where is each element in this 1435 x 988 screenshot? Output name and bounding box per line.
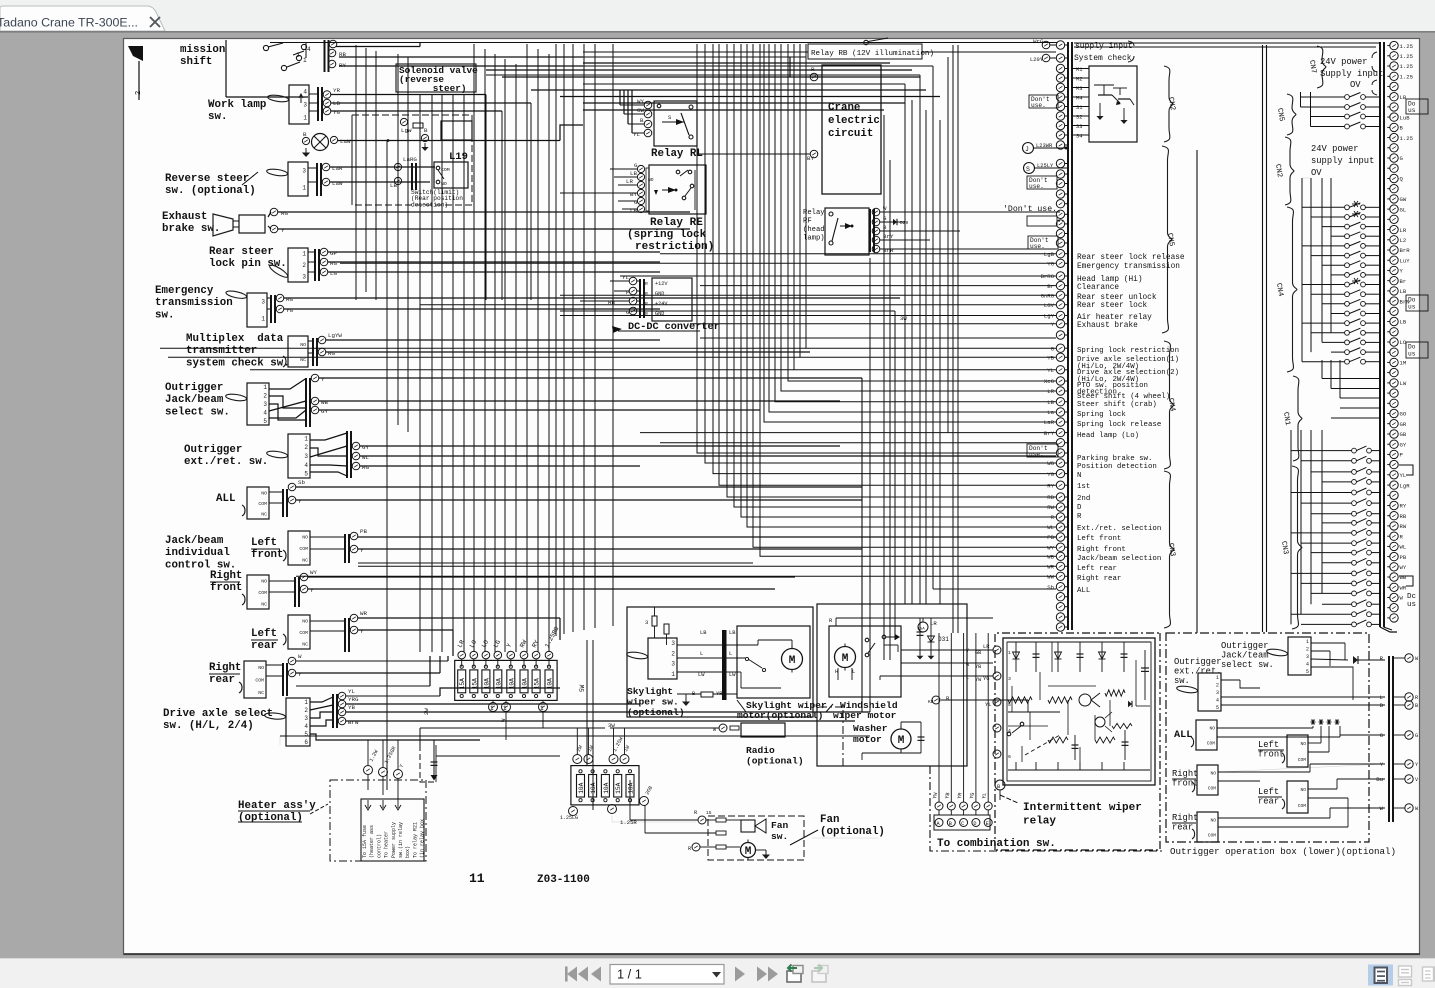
outrigger jack/beam select bar (305, 378, 307, 427)
toolbar last-page button (757, 967, 767, 982)
wire rear steer lock 2 (328, 261, 660, 263)
svg-text:1: 1 (263, 384, 267, 391)
svg-text:3: 3 (1306, 654, 1309, 660)
svg-text:15A: 15A (471, 678, 478, 689)
svg-text:M1: M1 (1076, 67, 1082, 73)
svg-text:S: S (1026, 166, 1030, 173)
combination feeder verticals (938, 633, 940, 770)
svg-text:L: L (1380, 694, 1383, 701)
svg-text:Y: Y (298, 671, 302, 678)
right rear switch (244, 661, 266, 698)
svg-text:us: us (1408, 351, 1416, 358)
relay RE wires (610, 168, 637, 170)
svg-text:To heater: To heater (384, 831, 390, 858)
svg-text:BrY: BrY (1044, 430, 1055, 437)
svg-text:Right: Right (1172, 769, 1198, 779)
svg-text:LB: LB (729, 630, 736, 636)
outrigger ext/ret pins (352, 442, 360, 450)
svg-text:YG: YG (286, 307, 293, 314)
svg-text:Clearance: Clearance (1077, 284, 1119, 292)
relay RE contacts (676, 170, 680, 174)
svg-text:5: 5 (1216, 705, 1219, 711)
svg-text:Head lamp (Hi): Head lamp (Hi) (1077, 276, 1143, 284)
svg-text:Outrigger operation box (lower: Outrigger operation box (lower)(optional… (1170, 846, 1396, 857)
svg-text:select sw.: select sw. (1221, 660, 1274, 670)
svg-text:Skylight: Skylight (627, 686, 673, 697)
pin J (1023, 143, 1034, 154)
intermittent relay left pins (993, 646, 1001, 654)
washer capacitor (920, 725, 922, 753)
svg-text:Y: Y (360, 628, 364, 635)
svg-text:transmission: transmission (155, 297, 233, 309)
relay RF contacts (829, 212, 833, 216)
svg-text:Outrigger: Outrigger (1174, 657, 1222, 667)
svg-text:R: R (1415, 695, 1418, 701)
wire top bus relay RB (583, 51, 808, 53)
toolbar continuous-view button (1399, 966, 1412, 977)
emergency transmission bar (270, 295, 272, 323)
svg-text:5: 5 (1008, 702, 1011, 708)
svg-text:sw. (H/L, 2/4): sw. (H/L, 2/4) (163, 720, 254, 732)
svg-text:Fan: Fan (820, 814, 839, 826)
wire from transmission shift pin 4 (336, 46, 420, 48)
svg-text:1: 1 (1216, 675, 1219, 681)
dont use box right 1 (1406, 99, 1428, 114)
fuse row1 pins and labels (458, 651, 466, 659)
svg-text:KB: KB (928, 699, 934, 705)
svg-text:LB: LB (700, 630, 707, 636)
svg-text:us: us (1408, 304, 1416, 311)
wire rr horizontal extra (296, 685, 430, 687)
toolbar next-page button (735, 967, 745, 982)
outrigger op ALL switch (1196, 720, 1217, 750)
svg-text:NO: NO (648, 177, 654, 183)
svg-text:Crane: Crane (828, 102, 860, 114)
wire lf horizontal extra (358, 562, 753, 564)
wire bulb to L19 (338, 140, 560, 142)
right front pins (300, 573, 308, 581)
svg-text:LR: LR (930, 620, 937, 627)
long vertical wire A (1196, 150, 1198, 633)
svg-text:3: 3 (671, 640, 675, 647)
svg-text:10A: 10A (522, 678, 529, 689)
wire da 2 (346, 703, 640, 705)
relay RB contact (864, 40, 868, 44)
svg-text:transmitter: transmitter (186, 345, 257, 357)
combination dashed outline (930, 766, 1163, 851)
svg-text:mission: mission (180, 44, 225, 56)
fan pins (698, 816, 706, 824)
wire oer 2 (360, 455, 1056, 457)
svg-text:sw.: sw. (771, 831, 788, 842)
drive axle select switch (286, 698, 310, 746)
toolbar next-view icon (disabled) (812, 971, 826, 982)
wire exhaust brake 1 (268, 212, 271, 217)
svg-text:Steer shift (4 wheel): Steer shift (4 wheel) (1077, 393, 1170, 401)
svg-text:NO: NO (258, 665, 264, 671)
svg-text:M: M (745, 846, 752, 858)
ALL switch (247, 487, 269, 519)
svg-text:(in relay box: (in relay box (420, 819, 426, 858)
svg-text:use.: use. (1029, 451, 1044, 458)
wire multiplex 2 (326, 351, 810, 353)
svg-text:rear: rear (251, 640, 277, 652)
svg-text:GR: GR (1400, 421, 1407, 428)
browser tab bar background (0, 0, 1435, 31)
wire work lamp 1 (331, 94, 486, 96)
svg-text:3: 3 (302, 168, 306, 175)
transmission shift switch contacts (263, 45, 268, 50)
outrigger op wires (1311, 642, 1345, 644)
svg-text:COM: COM (255, 678, 264, 684)
CN5 bracket right (1287, 94, 1296, 135)
wire long vertical O2 (952, 45, 954, 633)
drive axle pins (338, 692, 346, 700)
wire bottom horizontals (420, 727, 560, 729)
svg-text:WY: WY (1047, 544, 1054, 551)
svg-text:Bu: Bu (1376, 776, 1383, 783)
right feeder verticals CN4 tops (1302, 177, 1311, 179)
svg-text:COM: COM (1208, 786, 1217, 792)
dont use box 4 (1028, 236, 1058, 249)
reverse steer switch (288, 162, 308, 196)
svg-text:WR: WR (1400, 585, 1407, 592)
svg-text:1: 1 (304, 435, 308, 442)
svg-text:3: 3 (303, 102, 307, 109)
svg-text:PB: PB (1400, 554, 1407, 561)
svg-text:WW: WW (1047, 574, 1054, 581)
svg-text:1.25: 1.25 (1400, 135, 1413, 142)
svg-text:WB: WB (1400, 574, 1407, 581)
svg-text:5W: 5W (579, 684, 586, 692)
svg-text:YB: YB (944, 792, 951, 799)
D31 diodes (919, 618, 921, 648)
svg-text:WY: WY (637, 98, 644, 105)
small stub bracket right 1 (1399, 465, 1413, 475)
svg-text:2W: 2W (423, 708, 430, 715)
svg-text:R: R (694, 810, 697, 816)
svg-text:control): control) (376, 834, 382, 858)
svg-text:Emergency: Emergency (155, 285, 214, 297)
wire ojb 2 (319, 400, 840, 402)
svg-text:R: R (645, 301, 648, 307)
empty dash box (1027, 216, 1057, 226)
rear steer lock pin pins (320, 248, 328, 256)
wire bus rows to CN4 (160, 347, 806, 349)
svg-text:To 15A fuse: To 15A fuse (362, 825, 368, 858)
svg-text:front: front (251, 549, 283, 561)
svg-text:LB: LB (630, 170, 637, 177)
svg-text:J: J (1025, 146, 1029, 153)
svg-text:N: N (1077, 472, 1081, 480)
svg-text:individual: individual (165, 547, 230, 559)
right rear bar (282, 663, 284, 696)
emergency transmission switch (247, 293, 267, 327)
svg-text:Rear steer lock: Rear steer lock (1077, 302, 1148, 310)
outrigger op left rear switch (1287, 781, 1308, 813)
right rows CN1 (1322, 378, 1380, 380)
fuse row1 lower wires (492, 700, 494, 703)
wire da 4 (346, 720, 855, 722)
wire top bus 2 (583, 56, 806, 58)
wire long vertical G (889, 160, 891, 660)
skylight wiper switch (648, 638, 677, 679)
svg-text:WrG: WrG (1033, 38, 1044, 45)
svg-text:RY: RY (1047, 482, 1054, 489)
wire ojb 1 (319, 377, 862, 379)
svg-text:GY: GY (362, 444, 369, 451)
svg-text:LW: LW (698, 672, 705, 678)
svg-text:GnRG: GnRG (1041, 292, 1055, 299)
svg-text:RW: RW (1400, 523, 1407, 530)
svg-text:Spring lock: Spring lock (1077, 411, 1126, 419)
bracket CN5 center (1162, 146, 1172, 333)
wire top bus 1 (270, 42, 1057, 44)
svg-text:LG: LG (330, 270, 337, 277)
svg-text:Rear steer lock release: Rear steer lock release (1077, 254, 1185, 262)
wire top right span 2 (1074, 46, 1376, 48)
svg-text:Sb: Sb (1047, 584, 1054, 591)
heater arrows (365, 800, 371, 810)
svg-text:4: 4 (307, 46, 311, 53)
svg-text:COM: COM (299, 546, 308, 552)
multiplex check switch (288, 336, 308, 367)
fuse row1 lower pins (489, 703, 498, 712)
svg-text:Jack/beam: Jack/beam (165, 535, 224, 547)
toolbar two-page-view button (1423, 967, 1434, 981)
relay RF wires (880, 211, 1060, 213)
wire bottom bus 1 (387, 755, 1166, 757)
fan dashed box (708, 816, 804, 860)
emergency transmission pins (276, 294, 284, 302)
svg-text:LR: LR (1400, 227, 1407, 234)
svg-text:4: 4 (1008, 728, 1011, 734)
svg-text:Rear steer unlock: Rear steer unlock (1077, 294, 1157, 302)
right rear pins (288, 657, 296, 665)
svg-text:Radio: Radio (746, 745, 775, 756)
intermittent relay bottom pin (995, 780, 1005, 790)
svg-text:Power supply: Power supply (391, 822, 397, 858)
right front switch (247, 575, 269, 609)
svg-text:Outrigger: Outrigger (165, 382, 223, 394)
skylight motor box (737, 626, 810, 698)
svg-text:3: 3 (261, 299, 265, 306)
svg-text:D31: D31 (938, 636, 949, 643)
central connector bar CN2-CN3 (1067, 42, 1069, 630)
svg-text:NO: NO (300, 342, 306, 348)
svg-text:M3: M3 (1076, 86, 1082, 92)
right switch rows CN5 (1301, 96, 1345, 98)
svg-text:10A: 10A (508, 678, 515, 689)
svg-text:motor: motor (853, 734, 882, 745)
windshield contacts (865, 638, 869, 642)
wire rf 2 (269, 591, 295, 593)
svg-text:1: 1 (490, 705, 494, 712)
wire long vertical L2 (932, 66, 934, 589)
svg-text:1.25: 1.25 (1400, 53, 1413, 60)
wire reverse steer 1 (330, 166, 418, 168)
svg-text:10A: 10A (628, 782, 635, 793)
svg-text:COM: COM (258, 501, 267, 507)
svg-text:NC: NC (302, 641, 308, 647)
svg-text:10A: 10A (547, 678, 554, 689)
svg-text:15: 15 (706, 810, 712, 816)
svg-text:G: G (634, 162, 638, 169)
svg-text:GY: GY (1400, 441, 1407, 448)
svg-text:Y: Y (281, 227, 285, 234)
svg-text:NO: NO (1210, 818, 1216, 824)
svg-text:ALL: ALL (216, 493, 235, 505)
svg-text:2: 2 (1306, 646, 1309, 652)
svg-text:Exhaust brake: Exhaust brake (1077, 322, 1138, 330)
svg-text:5: 5 (304, 471, 308, 478)
intermittent relay outer dash box (995, 633, 1160, 850)
intermittent relay internals (1015, 642, 1017, 672)
svg-text:restriction): restriction) (635, 241, 714, 253)
svg-text:LB: LB (1400, 319, 1407, 326)
svg-text:ALL: ALL (1174, 730, 1192, 741)
combination connector box (934, 815, 990, 830)
svg-text:Do: Do (1408, 297, 1416, 304)
svg-text:M2: M2 (1076, 77, 1082, 83)
svg-text:WL: WL (1047, 524, 1054, 531)
svg-text:NO: NO (1210, 771, 1216, 777)
outrigger op right rear switch (1197, 812, 1218, 842)
svg-text:NC: NC (302, 557, 308, 563)
svg-text:sw. (optional): sw. (optional) (165, 185, 256, 197)
svg-text:2: 2 (302, 262, 306, 269)
heater feed wires (367, 775, 369, 790)
svg-text:Left rear: Left rear (1077, 565, 1117, 573)
svg-text:Br: Br (1047, 283, 1054, 290)
dont use box 1 (1029, 95, 1058, 108)
svg-text:S4: S4 (1076, 134, 1082, 140)
svg-text:COM: COM (1298, 803, 1307, 809)
svg-text:select sw.: select sw. (165, 406, 230, 418)
svg-text:lock pin sw.: lock pin sw. (209, 258, 287, 270)
svg-text:3: 3 (645, 619, 648, 626)
windshield outer box (817, 604, 967, 766)
svg-text:1: 1 (303, 57, 307, 64)
svg-text:R: R (645, 311, 648, 317)
svg-text:C: C (961, 821, 964, 827)
svg-text:GY: GY (321, 408, 328, 415)
toolbar previous-view icon (787, 971, 801, 982)
svg-text:supply input: supply input (1311, 156, 1374, 166)
wire lf 1 (310, 536, 345, 538)
svg-text:COM: COM (1298, 757, 1307, 763)
svg-text:R: R (645, 281, 648, 287)
svg-text:Relay RE: Relay RE (650, 217, 703, 229)
svg-text:Right: Right (1172, 813, 1198, 823)
svg-text:Tadano Crane TR-300E...: Tadano Crane TR-300E... (0, 15, 138, 29)
svg-text:E: E (986, 821, 989, 827)
svg-text:L20Y: L20Y (1030, 57, 1044, 63)
svg-text:NO: NO (1209, 726, 1215, 732)
fuse row2 lower pins (569, 807, 578, 816)
svg-text:1: 1 (302, 251, 306, 258)
svg-text:S2: S2 (1076, 115, 1082, 121)
svg-text:B: B (640, 117, 644, 124)
svg-text:RG: RG (286, 296, 293, 303)
svg-text:3: 3 (263, 401, 267, 408)
wire long vertical M2 (939, 120, 941, 604)
svg-text:W: W (298, 653, 302, 660)
svg-text:4: 4 (304, 723, 308, 730)
svg-text:RG: RG (330, 260, 337, 267)
wire ojb 3 (319, 409, 760, 411)
svg-text:YG: YG (1047, 261, 1054, 268)
fan motor (741, 843, 756, 858)
fuse row2 feed verticals (576, 728, 578, 755)
svg-text:4: 4 (304, 462, 308, 469)
svg-text:use.: use. (1029, 183, 1044, 190)
svg-text:Left: Left (1258, 740, 1279, 750)
svg-text:Z03-1100: Z03-1100 (537, 874, 590, 886)
svg-text:Left: Left (251, 628, 277, 640)
svg-text:To relay R21: To relay R21 (412, 822, 418, 858)
svg-text:4: 4 (263, 409, 267, 416)
svg-text:RG: RG (281, 210, 288, 217)
outrigger op diode (1353, 656, 1358, 664)
svg-text:Right rear: Right rear (1077, 575, 1121, 583)
svg-text:Right: Right (210, 570, 242, 582)
svg-text:L: L (700, 651, 703, 657)
wire top bus 6 (560, 89, 890, 91)
svg-text:BrRG: BrRG (1041, 273, 1055, 280)
svg-text:2: 2 (135, 91, 143, 95)
fuse box row1 outline (455, 660, 557, 700)
svg-text:LaRG: LaRG (403, 156, 417, 163)
svg-text:YL: YL (981, 792, 988, 799)
svg-text:4: 4 (1216, 698, 1219, 704)
skylight bar (722, 630, 727, 700)
svg-text:10A: 10A (590, 782, 597, 793)
svg-text:(spring lock: (spring lock (627, 229, 707, 241)
svg-text:Y: Y (321, 376, 325, 383)
svg-text:LaW: LaW (332, 180, 343, 187)
bracket CN3 center (1164, 471, 1174, 628)
skylight fuses above (652, 616, 657, 626)
svg-text:3: 3 (1216, 690, 1219, 696)
svg-text:WR: WR (360, 610, 367, 617)
outrigger op left front switch (1287, 735, 1308, 767)
svg-text:us: us (1407, 601, 1416, 609)
svg-text:Exhaust: Exhaust (162, 211, 207, 223)
svg-text:NC: NC (261, 601, 267, 607)
svg-text:Spring lock restriction: Spring lock restriction (1077, 347, 1179, 355)
svg-text:24V power: 24V power (1311, 144, 1359, 154)
svg-text:use.: use. (1031, 102, 1046, 109)
svg-text:RG: RG (362, 464, 369, 471)
wire rear steer lock 1 (328, 251, 660, 253)
combination pins above (935, 802, 943, 810)
svg-text:Jack/beam selection: Jack/beam selection (1077, 555, 1161, 563)
svg-text:Ext./ret. selection: Ext./ret. selection (1077, 525, 1161, 533)
windshield 15A pin (918, 622, 928, 632)
long vertical wire B (1262, 45, 1264, 632)
washer wires (900, 722, 902, 729)
svg-text:Position detection: Position detection (1077, 463, 1157, 471)
svg-text:steer): steer) (399, 83, 467, 94)
svg-text:L19: L19 (449, 151, 468, 163)
svg-text:1.25: 1.25 (1400, 43, 1413, 50)
svg-text:LB: LB (1400, 288, 1407, 295)
left rear bar (344, 618, 346, 652)
svg-text:OV: OV (1350, 80, 1361, 90)
solenoid coil (441, 121, 472, 140)
fan speaker symbol (741, 820, 755, 832)
